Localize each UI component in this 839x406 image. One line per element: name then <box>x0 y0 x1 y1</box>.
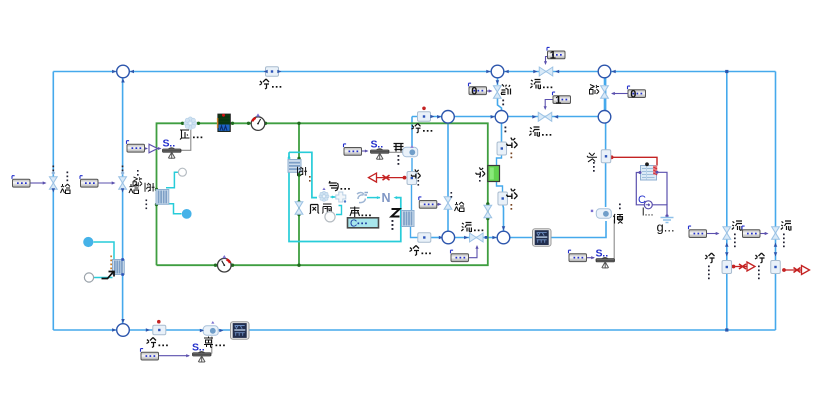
valve V497 <box>493 86 501 99</box>
pipe P727 <box>722 261 732 274</box>
ctrl F to valve x53 <box>30 181 47 184</box>
wire x497 down1 <box>497 78 499 85</box>
heatflow pipe727 <box>732 262 755 271</box>
label I elec <box>642 207 654 219</box>
ctrl F1b to valve545 <box>544 100 553 111</box>
label g ground <box>657 220 675 235</box>
arrow into J4 left <box>491 115 495 119</box>
wire x606 pump up <box>605 163 607 208</box>
fblock F476 <box>451 250 469 261</box>
arrow P776 top <box>774 252 778 256</box>
ctrl F to stable4 <box>587 256 595 259</box>
wire greenbox to pipe2 <box>497 181 503 193</box>
label V776 rot <box>781 221 791 247</box>
wire blades to N <box>367 197 380 199</box>
refrigerant icon bottom <box>231 322 250 340</box>
arrow into J8 left <box>492 236 496 240</box>
arrow P424b R <box>439 236 443 240</box>
wire outer loop left <box>52 72 54 331</box>
wire fan loop <box>289 152 401 241</box>
label EX3 rot <box>298 167 311 182</box>
ctrl F to stable2 <box>361 149 369 152</box>
label C elec <box>638 194 646 206</box>
label P776 rot <box>755 253 765 279</box>
wire x606 pipe up <box>605 78 607 150</box>
ctrl F to stable3 <box>159 354 190 357</box>
greenbox EXV <box>488 166 500 182</box>
wire green mid vertical <box>298 123 300 265</box>
fblock F53 <box>12 176 30 187</box>
pipe P502b <box>498 192 508 205</box>
wire x412 pipe to exch <box>411 184 413 212</box>
label N source <box>382 191 391 205</box>
label compressor <box>180 130 202 140</box>
wire x502 pipe to greenbox <box>497 155 502 167</box>
wire right vertical x727 <box>726 72 728 331</box>
wire exch4 to pipe5 <box>411 226 418 238</box>
node dot after V476 <box>485 236 488 239</box>
svg-text:g...: g... <box>657 220 675 235</box>
pump PU212 <box>203 326 218 335</box>
wire blue circle2 to exch2 <box>94 242 115 260</box>
arrow into J1 left <box>112 70 116 74</box>
arrow pipe top L <box>264 70 268 74</box>
valve V727 <box>723 227 731 240</box>
node dot exch2 bottom <box>121 273 124 276</box>
arrow fan top down <box>287 155 290 159</box>
ctrl F to valve776 <box>760 232 769 235</box>
label V604 rot <box>590 85 600 95</box>
sglyph ST2 <box>371 139 383 151</box>
valve V53 <box>49 177 57 190</box>
label P424 <box>411 123 432 133</box>
exch EX2 <box>113 260 125 275</box>
valve V299 <box>295 202 303 215</box>
arrow into N right <box>394 196 398 199</box>
wire x497 jog <box>498 98 502 110</box>
arrow into plus <box>332 195 336 198</box>
arrow below V122 <box>121 188 125 192</box>
arrow into J8 top <box>502 226 506 230</box>
wire green loop <box>157 123 488 265</box>
pipe P159 <box>153 325 166 335</box>
sglyph ST4 <box>596 248 608 260</box>
refrigerant icon mid <box>533 229 552 247</box>
gauge GA1 <box>251 113 265 130</box>
wire elec left <box>636 173 644 205</box>
stable ST3 <box>193 352 212 363</box>
label P502b rot <box>506 189 517 210</box>
ctrl comp chain2 <box>158 147 162 150</box>
dot red above P424 <box>422 107 426 111</box>
arrow into V776 bottom <box>774 243 778 247</box>
valve V604 <box>601 86 609 99</box>
label P424b <box>410 246 431 256</box>
sglyph ST3 <box>192 342 204 354</box>
arrow glyph exch2 <box>102 271 115 279</box>
ctrl stable4 gray <box>613 220 615 259</box>
wire elec top right <box>657 172 668 205</box>
fblock F1b <box>553 92 571 106</box>
ctrl stable2 gray <box>390 151 405 153</box>
dot purple left PU606 <box>591 210 593 212</box>
junction J6 <box>442 111 455 124</box>
arrow P727 top <box>725 252 729 256</box>
wire row3 y237 <box>431 237 444 239</box>
valve V488 <box>484 205 492 218</box>
circle blue C3 <box>83 237 93 247</box>
arrow into V727 bottom <box>725 243 729 247</box>
dots orange exch2 <box>110 256 112 270</box>
wire outer loop top <box>53 71 775 73</box>
wire elec right <box>652 205 667 217</box>
svg-text:S: S <box>596 248 603 260</box>
arrow PU212 L <box>200 329 204 333</box>
pipe P424b <box>418 233 431 243</box>
wire x448 valve to junction <box>447 208 449 232</box>
dots above V53 <box>52 166 54 172</box>
fblock F0b <box>628 86 646 100</box>
fblock F0a <box>469 83 487 97</box>
dot purple above PU212 <box>211 321 214 324</box>
wire row2 <box>412 116 598 118</box>
junction J9 <box>117 324 130 337</box>
arrow into J6 left <box>437 115 441 119</box>
diamond above V53 <box>51 171 55 175</box>
wire pipe2 to junction <box>502 205 505 232</box>
svg-text:1: 1 <box>555 94 561 106</box>
svg-text:C: C <box>350 219 357 230</box>
arrow into V476 L <box>464 236 468 240</box>
ctable box <box>348 218 379 230</box>
valve V476 <box>470 233 484 242</box>
arrow into J1 bottom <box>121 78 125 82</box>
wire snow to plus <box>331 196 336 198</box>
heatflow pipe776 <box>782 266 809 275</box>
pipe cooling top <box>266 67 279 77</box>
label V448 <box>451 192 465 212</box>
ctrl F to valve x122 <box>98 181 116 184</box>
wire right vertical x776 <box>775 72 777 331</box>
heatflow into pipe3 <box>369 173 407 182</box>
exch EX3 <box>288 160 301 173</box>
fblock F122 <box>80 176 98 187</box>
svg-text:N: N <box>382 191 391 205</box>
fblock Fcomp <box>127 141 145 152</box>
label V476 <box>461 223 483 233</box>
dots below glyph <box>398 155 400 165</box>
label EX4 N rot <box>392 209 400 230</box>
label cheng <box>350 207 371 218</box>
junction J3 <box>598 65 611 78</box>
label EX1 rot b <box>145 183 155 209</box>
fblock F606 <box>569 250 587 261</box>
dots below V497 <box>502 100 504 106</box>
node dot top x727 <box>725 70 728 73</box>
dots above V122 <box>122 166 124 172</box>
wire row3 valves <box>455 237 498 239</box>
wire x502 down to pipe <box>501 123 503 143</box>
junction J1 <box>117 65 130 78</box>
svg-text:0: 0 <box>630 88 636 100</box>
ctrl F to valve448 <box>437 203 442 206</box>
valve V776 <box>772 227 780 240</box>
valve V122 <box>119 177 127 190</box>
wire row3 right <box>510 221 606 238</box>
arrow below V53 <box>52 188 56 192</box>
arrow into V545 R <box>554 115 558 119</box>
ctrl F0 to valve497 <box>487 89 493 92</box>
circle blue C2 <box>182 209 192 219</box>
valve V448 <box>444 197 452 210</box>
plus icon <box>336 192 346 203</box>
diamond above V122 <box>121 171 125 175</box>
label pipe top <box>260 79 282 89</box>
dot purple above fan snow <box>322 188 325 191</box>
label V497 rot <box>501 84 511 94</box>
gauge GA2 <box>218 255 232 272</box>
wire fan circle stub <box>336 206 342 215</box>
pipe P424 top <box>418 112 431 122</box>
arrow pipe top R <box>277 70 281 74</box>
label V53 <box>61 172 71 194</box>
label P159 <box>147 338 168 348</box>
svg-text:0: 0 <box>471 85 477 97</box>
arrow into J3 right <box>612 70 616 74</box>
circle white C4 <box>84 273 93 282</box>
compressor snowflake <box>184 117 197 130</box>
gain triangle <box>149 144 158 153</box>
arrow into J2 right <box>505 70 509 74</box>
svg-text:1: 1 <box>550 50 556 62</box>
pipe P502a <box>497 142 507 155</box>
dots above P502a <box>505 127 507 133</box>
label P727 rot <box>705 253 715 279</box>
node dot elec3 <box>656 171 659 174</box>
ctrl F to valve727 <box>707 232 720 235</box>
wire inner vertical x122 <box>122 72 124 331</box>
stable ST1 <box>163 148 182 159</box>
ctrl F1a to valve546 <box>544 57 547 66</box>
node dot exch2 top <box>121 258 124 261</box>
arrow into J9 top <box>121 319 125 323</box>
compressor icon dark <box>217 114 231 132</box>
junction J4 <box>495 111 508 124</box>
arrow into V546 L <box>533 70 537 74</box>
label V545 <box>529 127 551 137</box>
ctrl stable3 gray <box>211 337 213 354</box>
ctrl F to valve476 <box>469 245 479 258</box>
svg-text:S: S <box>163 138 170 150</box>
ctrl comp gray <box>181 129 191 151</box>
fblock F448 <box>419 197 437 208</box>
label PU606 <box>614 204 624 224</box>
svg-text:S: S <box>371 139 378 151</box>
arrow into J9 left <box>112 328 116 332</box>
label P502a rot <box>506 138 517 159</box>
arrow P424 R <box>430 115 434 119</box>
dot purple above PU412 <box>410 145 413 148</box>
arrow into J2 left <box>486 70 490 74</box>
pipe P776 <box>771 261 781 274</box>
wire exch1 to circle bottom <box>169 204 182 214</box>
ctrl 0 to valve604 <box>611 92 628 95</box>
ctrl comp chain1 <box>144 147 148 150</box>
fblock F776 <box>742 226 760 237</box>
fblock F212 <box>141 349 159 360</box>
wire x412 down <box>411 117 413 147</box>
label V546 <box>530 80 552 90</box>
svg-text:l...: l... <box>642 207 654 219</box>
stable ST2 <box>371 149 390 160</box>
dot red above P159 <box>157 320 161 324</box>
wire x604 to top <box>604 98 606 110</box>
svg-text:S: S <box>192 342 199 354</box>
exch EX4 <box>402 211 415 227</box>
fan blades glyph <box>357 193 368 203</box>
heat wire water pipe <box>610 155 657 165</box>
arrow into V497 top <box>496 80 500 84</box>
sglyph ST1 <box>163 138 175 150</box>
arrow into N <box>377 196 381 199</box>
fan snowflake <box>319 191 329 201</box>
wire outer loop bottom <box>53 329 775 331</box>
green junction dots <box>155 122 490 267</box>
wire x448 junction col <box>447 117 449 199</box>
label fengshan <box>310 204 332 214</box>
wire x412 pump to pipe <box>411 158 413 172</box>
fblock F727 <box>689 226 707 237</box>
junction J5 <box>598 111 611 124</box>
pump PU412 <box>403 147 418 156</box>
glyph dark table S2 right <box>394 144 404 152</box>
wire x604 valve up <box>604 78 606 85</box>
arrow P159 L <box>146 328 150 332</box>
valve V546 <box>539 67 553 76</box>
node dot elec <box>665 214 668 217</box>
label P412 rot <box>411 169 421 185</box>
battery heater <box>641 162 658 180</box>
pump PU606 <box>596 209 611 218</box>
wire fan top <box>289 152 317 197</box>
stable ST4 <box>596 258 615 269</box>
junction J8 <box>497 231 510 244</box>
label EX1 rot a <box>133 170 142 186</box>
wire white circle2 to exch2 <box>94 277 113 279</box>
junction J7 <box>442 231 455 244</box>
svg-text:C: C <box>638 194 646 206</box>
arrow into V545 L <box>532 115 536 119</box>
fblock F1a <box>547 47 565 61</box>
label V122 <box>129 184 139 194</box>
label qi <box>329 181 350 191</box>
label PU212 <box>204 337 225 348</box>
ground GND <box>661 218 674 223</box>
pipe P606 water <box>601 150 611 163</box>
wire exch1 to circle top <box>166 172 179 188</box>
node dot elec2 <box>639 171 642 174</box>
current source CS <box>644 201 652 209</box>
exch EX1 <box>156 190 169 205</box>
valve V545 <box>538 112 552 121</box>
label V727 rot <box>732 221 742 247</box>
arrow into J1 right <box>130 70 134 74</box>
label EXV rot <box>476 167 486 181</box>
circle white C1 <box>178 168 186 176</box>
fblock Fmid <box>344 144 362 155</box>
fan circle <box>325 212 335 222</box>
arrow into V546 R <box>555 70 559 74</box>
node dot bottom x727 <box>725 328 728 331</box>
arrow PU212 R <box>219 329 223 333</box>
pipe P412 <box>407 172 417 185</box>
label P606 rot <box>587 153 597 172</box>
junction J2 <box>491 65 504 78</box>
